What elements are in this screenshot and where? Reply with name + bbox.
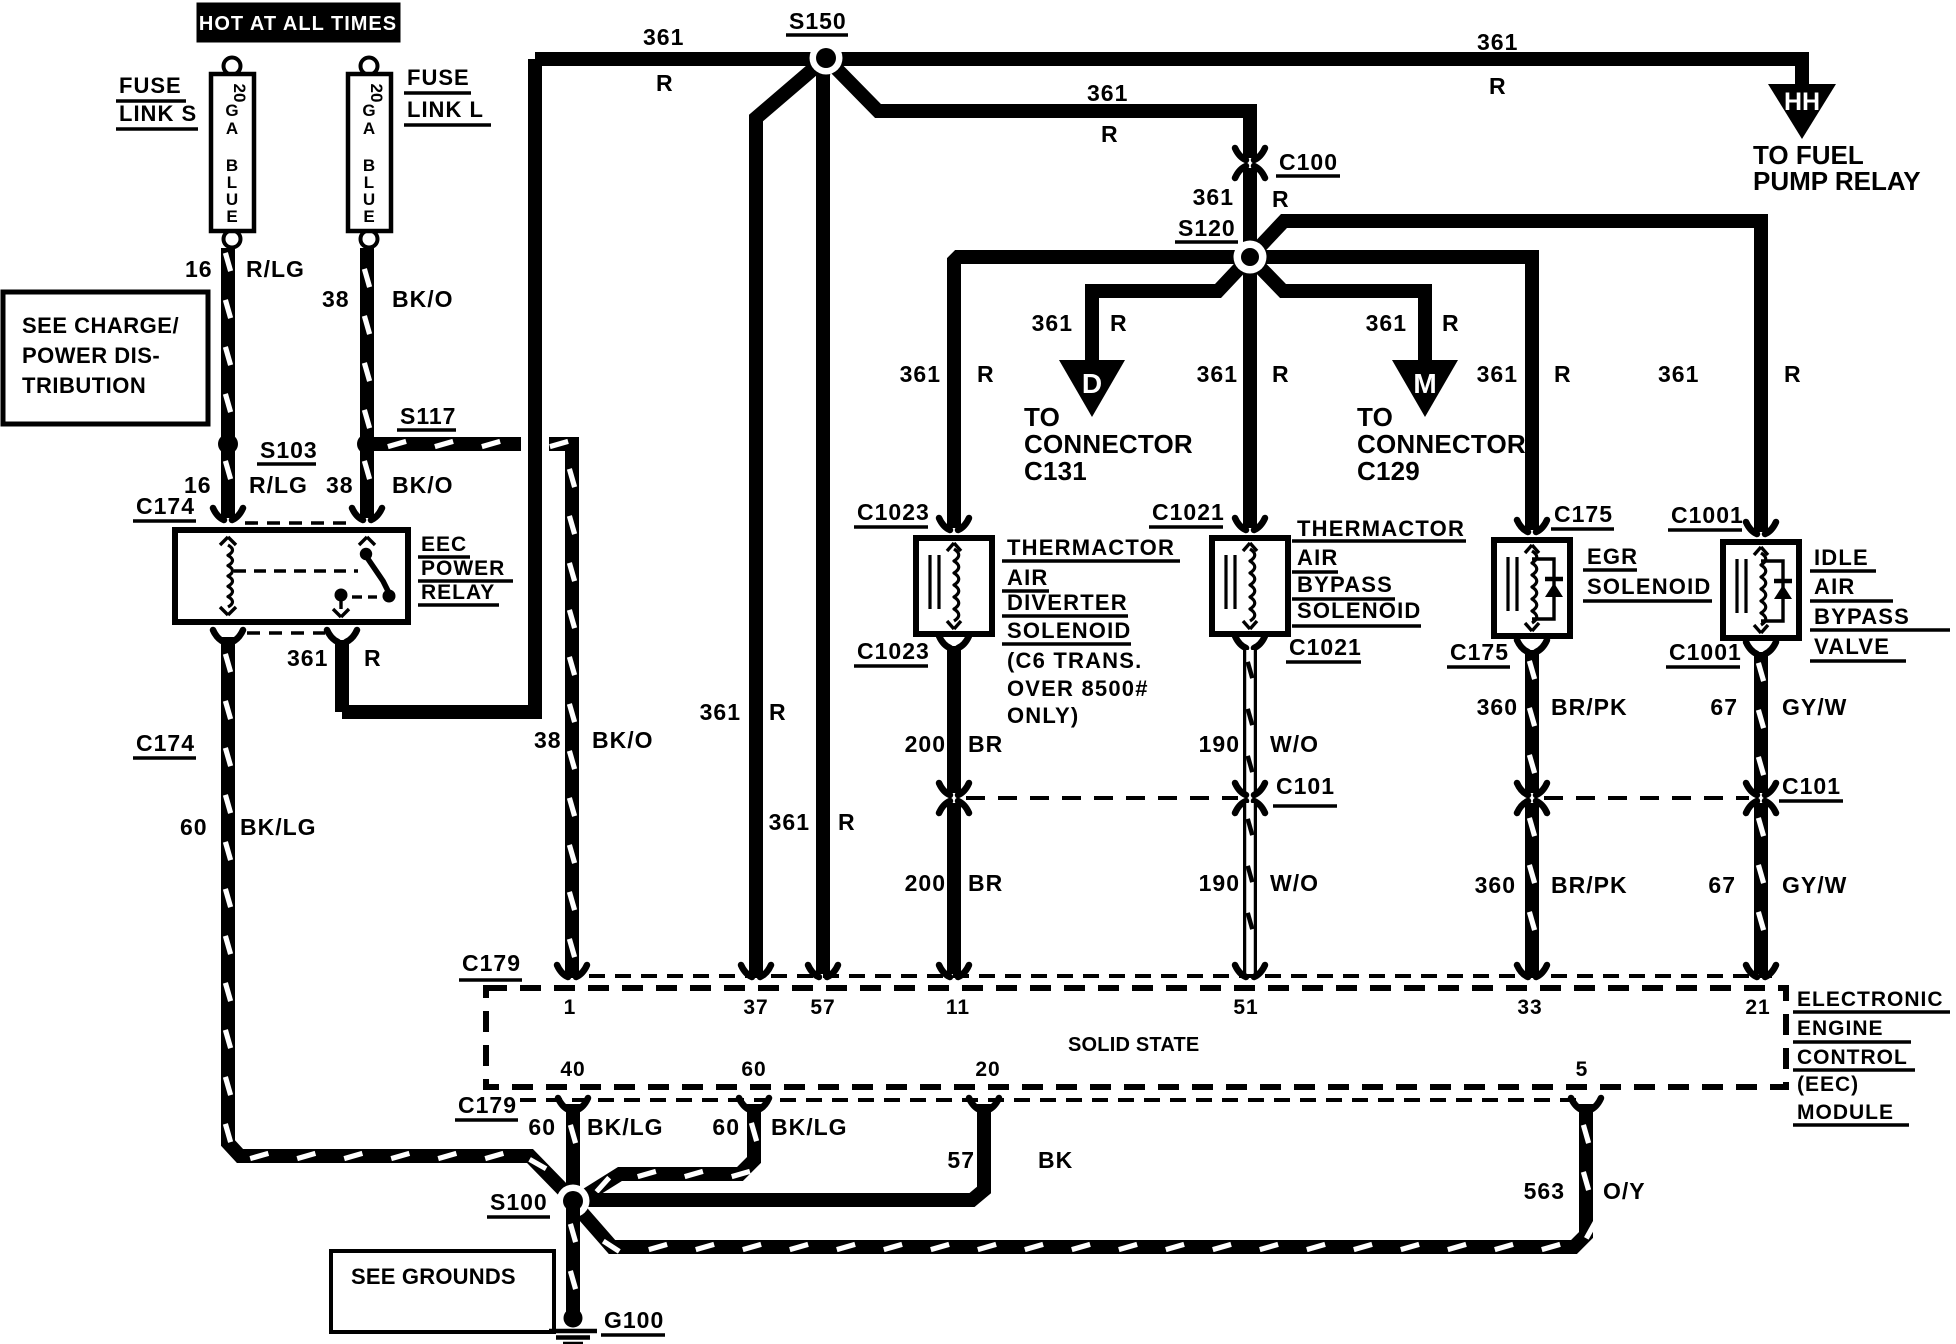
svg-text:C1021: C1021 <box>1289 634 1362 660</box>
svg-text:R: R <box>1272 186 1290 212</box>
solenoid C1021 thermactor air bypass <box>1212 538 1288 634</box>
svg-text:SOLID STATE: SOLID STATE <box>1068 1034 1199 1056</box>
wire 361 R S120 to connector C129 (M arrow) <box>1250 257 1425 362</box>
svg-text:38: 38 <box>322 286 350 312</box>
svg-text:C101: C101 <box>1276 773 1335 799</box>
svg-text:G: G <box>225 101 238 120</box>
svg-text:C129: C129 <box>1357 456 1420 486</box>
svg-text:33: 33 <box>1517 996 1542 1019</box>
svg-text:C174: C174 <box>136 493 195 519</box>
wire 360 BR/PK C101 to pin 33 <box>1525 803 1539 974</box>
wire 361 R S150 to pin 57 (vertical) <box>823 58 826 974</box>
svg-text:20: 20 <box>230 84 249 103</box>
fuse link L symbol <box>361 58 378 75</box>
svg-text:R: R <box>1442 310 1460 336</box>
wire 361 R relay output loop to top-left horizontal <box>335 640 349 712</box>
svg-text:563: 563 <box>1524 1178 1565 1204</box>
svg-text:C174: C174 <box>136 730 195 756</box>
splice S103 <box>218 434 238 454</box>
svg-text:51: 51 <box>1233 996 1258 1019</box>
svg-text:G100: G100 <box>604 1307 664 1333</box>
svg-text:37: 37 <box>743 996 768 1019</box>
connector C1023 bottom <box>939 636 950 648</box>
svg-text:A: A <box>363 119 375 138</box>
wire 38 BK/O S117 to C174 <box>360 444 374 518</box>
valve C1001 idle air bypass <box>1723 542 1799 638</box>
svg-text:BK/LG: BK/LG <box>587 1114 664 1140</box>
wire 16 R/LG fuse link S to S103 <box>221 248 235 444</box>
svg-text:C101: C101 <box>1782 773 1841 799</box>
module pin feet bottom <box>558 1098 569 1110</box>
svg-text:190: 190 <box>1199 731 1240 757</box>
relay coil <box>220 537 228 545</box>
wire 190 W/O C1021 to C101 <box>1243 650 1257 793</box>
connector C100 <box>1235 148 1246 160</box>
svg-text:EEC: EEC <box>421 533 467 556</box>
wire 200 BR C1023 to C101 <box>947 646 961 793</box>
arrow M to connector C129 <box>1392 360 1458 417</box>
wire S100 to G100 <box>566 1201 580 1316</box>
svg-text:S103: S103 <box>260 437 318 463</box>
wire 67 GY/W C1001 to C101 <box>1754 652 1768 793</box>
svg-text:FUSE: FUSE <box>407 65 470 90</box>
svg-text:60: 60 <box>741 1058 766 1081</box>
svg-text:A: A <box>226 119 238 138</box>
svg-text:361: 361 <box>700 699 741 725</box>
svg-text:S117: S117 <box>400 403 456 429</box>
fuse link S symbol <box>224 58 241 75</box>
power feed tag HOT AT ALL TIMES <box>197 3 400 42</box>
note box SEE CHARGE/POWER DISTRIBUTION <box>3 292 208 424</box>
wire 361 R S120 to connector C131 (D arrow) <box>1092 257 1250 362</box>
wire 16 R/LG S103 to C174 <box>221 444 235 518</box>
svg-text:FUSE: FUSE <box>119 73 182 98</box>
svg-text:60: 60 <box>180 814 208 840</box>
svg-text:R: R <box>1101 121 1119 147</box>
svg-text:LINK S: LINK S <box>119 101 197 126</box>
svg-text:200: 200 <box>905 731 946 757</box>
connector C101 right half <box>1517 783 1528 795</box>
svg-text:BR: BR <box>968 731 1003 757</box>
svg-text:R: R <box>1489 73 1507 99</box>
module pin feet top <box>557 965 568 977</box>
svg-text:SOLENOID: SOLENOID <box>1297 598 1422 623</box>
note box SEE GROUNDS <box>331 1251 554 1332</box>
connector C179 line top <box>563 974 1772 978</box>
svg-text:D: D <box>1082 368 1102 399</box>
connector C174 bottom (pins 60 and 361) <box>213 630 224 642</box>
svg-text:SOLENOID: SOLENOID <box>1007 618 1132 643</box>
svg-text:HOT AT ALL TIMES: HOT AT ALL TIMES <box>199 13 397 35</box>
solenoid C175 EGR <box>1494 540 1570 636</box>
wire 361 R S150 to pin 37 (diagonal+vertical) <box>756 58 826 974</box>
svg-text:C1001: C1001 <box>1671 502 1744 528</box>
svg-text:O/Y: O/Y <box>1603 1178 1646 1204</box>
svg-text:16: 16 <box>185 256 213 282</box>
arrow HH to fuel pump relay <box>1768 84 1836 139</box>
connector C1021 bottom <box>1235 636 1246 648</box>
svg-text:S120: S120 <box>1178 215 1236 241</box>
svg-text:BK/O: BK/O <box>392 472 454 498</box>
svg-text:C1001: C1001 <box>1669 639 1742 665</box>
svg-text:BK/O: BK/O <box>592 727 654 753</box>
wire 60 BK/LG pin 60 to S100 <box>580 1104 754 1199</box>
svg-text:DIVERTER: DIVERTER <box>1007 590 1128 615</box>
svg-text:361: 361 <box>1087 80 1128 106</box>
connector C1001 bottom <box>1746 642 1757 654</box>
svg-text:EGR: EGR <box>1587 544 1638 569</box>
svg-text:HH: HH <box>1784 88 1820 116</box>
connector C179 line bottom <box>520 1098 1582 1102</box>
svg-text:R: R <box>977 361 995 387</box>
svg-text:BK: BK <box>1038 1147 1073 1173</box>
svg-text:R: R <box>1784 361 1802 387</box>
svg-text:IDLE: IDLE <box>1814 545 1869 570</box>
connector C101 (label) <box>1235 783 1246 795</box>
svg-text:SOLENOID: SOLENOID <box>1587 574 1712 599</box>
svg-text:S100: S100 <box>490 1189 548 1215</box>
svg-text:SEE CHARGE/: SEE CHARGE/ <box>22 313 179 338</box>
svg-text:C1023: C1023 <box>857 499 930 525</box>
svg-text:R: R <box>656 70 674 96</box>
svg-text:R: R <box>1272 361 1290 387</box>
wire 361 R S120 to EGR column <box>1250 257 1532 530</box>
svg-text:BK/LG: BK/LG <box>240 814 317 840</box>
svg-text:57: 57 <box>947 1147 975 1173</box>
splice S150 <box>810 42 843 75</box>
svg-text:361: 361 <box>1366 310 1407 336</box>
connector C175 top <box>1517 520 1528 532</box>
wire 60 BK/LG pin 40 to S100 <box>566 1104 580 1188</box>
svg-text:361: 361 <box>1193 184 1234 210</box>
svg-text:C175: C175 <box>1450 639 1509 665</box>
connector C1001 top <box>1746 522 1757 534</box>
connector C101 left half <box>939 783 950 795</box>
splice S120 <box>1234 241 1267 274</box>
svg-text:E: E <box>226 207 237 226</box>
svg-text:PUMP RELAY: PUMP RELAY <box>1753 166 1921 196</box>
wire 67 GY/W C101 to pin 21 <box>1754 803 1768 974</box>
relay box EEC POWER RELAY <box>175 530 408 622</box>
svg-text:E: E <box>363 207 374 226</box>
svg-text:BK/LG: BK/LG <box>771 1114 848 1140</box>
svg-text:60: 60 <box>712 1114 740 1140</box>
svg-text:G: G <box>362 101 375 120</box>
svg-text:C1023: C1023 <box>857 638 930 664</box>
svg-text:VALVE: VALVE <box>1814 634 1890 659</box>
svg-text:BR/PK: BR/PK <box>1551 694 1628 720</box>
connector C1023 top <box>939 518 950 530</box>
svg-text:R: R <box>1110 310 1128 336</box>
svg-text:ELECTRONIC: ELECTRONIC <box>1797 988 1944 1011</box>
svg-text:40: 40 <box>560 1058 585 1081</box>
svg-text:361: 361 <box>1477 361 1518 387</box>
svg-text:GY/W: GY/W <box>1782 694 1847 720</box>
svg-text:67: 67 <box>1710 694 1738 720</box>
svg-text:361: 361 <box>287 645 328 671</box>
svg-text:W/O: W/O <box>1270 731 1319 757</box>
svg-text:THERMACTOR: THERMACTOR <box>1297 516 1465 541</box>
solenoid C1023 thermactor air diverter <box>916 538 992 634</box>
svg-text:TO: TO <box>1024 402 1060 432</box>
svg-text:CONNECTOR: CONNECTOR <box>1357 429 1526 459</box>
svg-text:CONTROL: CONTROL <box>1797 1046 1908 1069</box>
svg-text:CONNECTOR: CONNECTOR <box>1024 429 1193 459</box>
svg-text:SEE GROUNDS: SEE GROUNDS <box>351 1264 516 1289</box>
wire 38 BK/O S117 to C179 pin 1 (horizontal run) <box>367 437 521 451</box>
connector C1021 top <box>1235 518 1246 530</box>
svg-text:THERMACTOR: THERMACTOR <box>1007 535 1175 560</box>
svg-text:20: 20 <box>975 1058 1000 1081</box>
svg-text:67: 67 <box>1708 872 1736 898</box>
splice S100 <box>557 1185 590 1218</box>
svg-text:POWER: POWER <box>421 557 505 580</box>
svg-text:S150: S150 <box>789 8 847 34</box>
svg-text:POWER DIS-: POWER DIS- <box>22 343 160 368</box>
svg-text:W/O: W/O <box>1270 870 1319 896</box>
wire 190 W/O C101 to pin 51 <box>1243 803 1257 974</box>
svg-text:11: 11 <box>946 996 970 1019</box>
svg-text:AIR: AIR <box>1007 565 1049 590</box>
svg-text:360: 360 <box>1477 694 1518 720</box>
wire 563 O/Y pin 5 to S100 <box>577 1104 1586 1247</box>
svg-text:C131: C131 <box>1024 456 1087 486</box>
svg-text:200: 200 <box>905 870 946 896</box>
svg-text:AIR: AIR <box>1297 545 1339 570</box>
svg-text:R: R <box>838 809 856 835</box>
wire 361 R S150 to fuel pump relay arrow <box>826 59 1802 86</box>
svg-text:ONLY): ONLY) <box>1007 703 1079 728</box>
relay actuation dashed link <box>234 569 358 572</box>
svg-text:(EEC): (EEC) <box>1797 1073 1859 1096</box>
svg-text:C100: C100 <box>1279 149 1338 175</box>
wire 360 BR/PK C175 to C101 <box>1525 650 1539 793</box>
svg-text:BR/PK: BR/PK <box>1551 872 1628 898</box>
svg-text:361: 361 <box>769 809 810 835</box>
svg-text:C175: C175 <box>1554 501 1613 527</box>
svg-text:21: 21 <box>1745 996 1770 1019</box>
svg-text:TRIBUTION: TRIBUTION <box>22 373 146 398</box>
wire 361 R C100 to S120 <box>1243 168 1257 257</box>
ground G100 <box>564 1309 583 1328</box>
svg-text:RELAY: RELAY <box>421 581 495 604</box>
svg-text:361: 361 <box>1477 29 1518 55</box>
svg-text:BYPASS: BYPASS <box>1297 572 1393 597</box>
svg-text:20: 20 <box>367 84 386 103</box>
svg-text:MODULE: MODULE <box>1797 1101 1894 1124</box>
svg-text:R/LG: R/LG <box>246 256 305 282</box>
svg-text:OVER 8500#: OVER 8500# <box>1007 676 1149 701</box>
connector C101 idle half <box>1746 783 1757 795</box>
svg-text:C179: C179 <box>458 1092 517 1118</box>
wire 38 BK/O fuse link L to S117 <box>360 248 374 444</box>
svg-text:361: 361 <box>643 24 684 50</box>
wire 361 R S120 to idle valve column <box>1250 221 1761 532</box>
svg-text:GY/W: GY/W <box>1782 872 1847 898</box>
svg-text:BK/O: BK/O <box>392 286 454 312</box>
svg-text:38: 38 <box>326 472 354 498</box>
module box ELECTRONIC ENGINE CONTROL (EEC) MODULE <box>486 988 1786 1087</box>
wire 361 R S120 to C1023 column <box>954 257 1250 528</box>
connector C174 top (pins 16 and 38) <box>213 508 224 520</box>
wire 361 R S150 to C100 <box>826 58 1250 158</box>
wire 200 BR C101 to pin 11 <box>947 803 961 974</box>
wire 361 R S120 down to C1021 <box>1243 257 1257 528</box>
svg-text:361: 361 <box>1032 310 1073 336</box>
arrow D to connector C131 <box>1059 360 1125 417</box>
svg-text:60: 60 <box>528 1114 556 1140</box>
svg-text:R: R <box>1554 361 1572 387</box>
svg-text:38: 38 <box>534 727 562 753</box>
svg-text:360: 360 <box>1475 872 1516 898</box>
svg-text:1: 1 <box>564 996 577 1019</box>
svg-text:(C6 TRANS.: (C6 TRANS. <box>1007 648 1142 673</box>
svg-text:361: 361 <box>1197 361 1238 387</box>
wire 57 BK pin 20 to S100 <box>585 1104 984 1200</box>
svg-text:TO: TO <box>1357 402 1393 432</box>
svg-text:R: R <box>364 645 382 671</box>
svg-text:190: 190 <box>1199 870 1240 896</box>
svg-text:M: M <box>1413 368 1436 399</box>
svg-text:5: 5 <box>1576 1058 1589 1081</box>
relay switch <box>359 537 367 545</box>
svg-text:BYPASS: BYPASS <box>1814 604 1910 629</box>
svg-text:C1021: C1021 <box>1152 499 1225 525</box>
connector C175 bottom <box>1517 640 1528 652</box>
wire 60 BK/LG C174 to S100 <box>228 637 569 1196</box>
splice S117 <box>357 434 377 454</box>
svg-text:361: 361 <box>1658 361 1699 387</box>
svg-text:R/LG: R/LG <box>249 472 308 498</box>
svg-text:AIR: AIR <box>1814 574 1856 599</box>
svg-text:ENGINE: ENGINE <box>1797 1017 1884 1040</box>
svg-text:LINK L: LINK L <box>407 97 484 122</box>
svg-text:57: 57 <box>810 996 835 1019</box>
svg-text:BR: BR <box>968 870 1003 896</box>
svg-text:361: 361 <box>900 361 941 387</box>
svg-text:C179: C179 <box>462 950 521 976</box>
svg-text:R: R <box>769 699 787 725</box>
